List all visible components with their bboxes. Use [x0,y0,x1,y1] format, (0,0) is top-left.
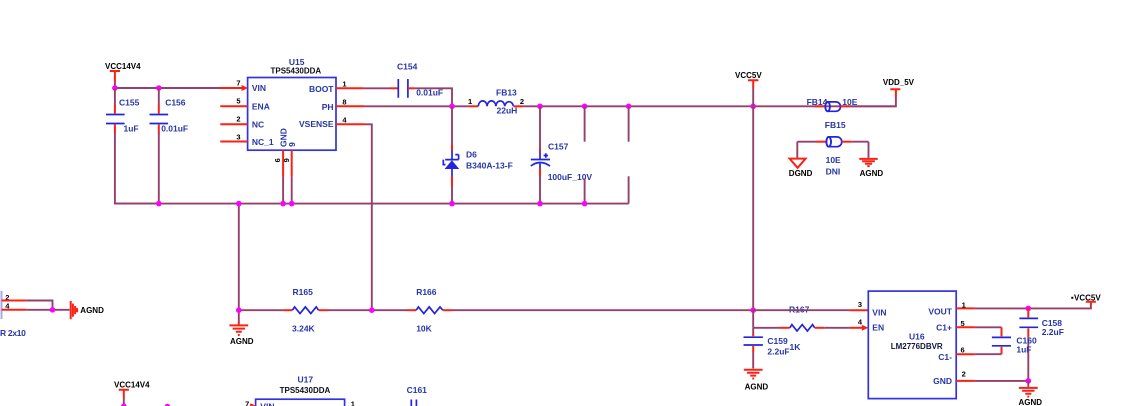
svg-text:VCC14V4: VCC14V4 [114,380,150,389]
ground DGND [789,142,813,178]
svg-text:DNI: DNI [826,167,841,177]
ground AGND rotated at connector [71,301,104,319]
wire output rail y106.3 [524,105,896,107]
unplaced footprint stub pair 2 [628,106,630,203]
wire C1+ to C160 [975,326,1002,328]
svg-text:FB15: FB15 [825,120,846,130]
junction at C156 [156,85,162,91]
power flag VCC5V right [1071,294,1101,306]
wire BOOT to C154 [363,87,390,89]
svg-text:AGND: AGND [745,383,769,392]
capacitor C161 (clipped) [407,385,428,406]
junction GND node [1026,378,1032,384]
capacitor C155 [106,88,159,204]
wire bottom GND rail y203.6 [115,203,629,205]
wire GND rail drop to AGND [238,204,240,322]
svg-text:7: 7 [245,400,249,406]
svg-text:D6: D6 [466,150,477,160]
pin 2 GND stub [956,370,975,381]
svg-text:VIN: VIN [260,402,274,406]
svg-text:22uH: 22uH [497,105,518,115]
svg-text:C155: C155 [119,97,140,107]
junction stub1 top [582,104,588,110]
capacitor C154 [390,61,443,97]
wire GND to AGND [975,380,1029,382]
connector fragment R 2x10 [0,291,70,338]
svg-text:NC: NC [252,119,264,129]
svg-text:3: 3 [236,133,240,142]
wire FB14 to VDD_5V [850,97,896,106]
svg-text:100uF_10V: 100uF_10V [548,172,593,182]
pin 4 EN stub with arrow [850,318,868,331]
svg-text:1: 1 [351,400,355,406]
svg-text:NC_1: NC_1 [252,137,274,147]
svg-text:6: 6 [273,158,282,162]
wire C154 to PH node [415,88,452,106]
junction stub2 top [626,104,632,110]
ferrite bead FB14 10E [807,97,858,111]
pin 5 C1+ stub [956,319,975,328]
wire EN branch from VCC5V node [753,310,779,328]
ground AGND below U16 [1019,381,1043,406]
svg-text:2: 2 [520,97,524,106]
power flag VCC14V4 [105,62,141,88]
pin 2 NC stub [220,115,247,125]
svg-text:1uF: 1uF [1016,345,1031,355]
wire VIN rail y88 [115,87,220,89]
junction C158 top [1026,306,1032,312]
svg-text:5: 5 [236,97,240,106]
svg-text:R 2x10: R 2x10 [0,328,26,338]
svg-text:10K: 10K [416,324,432,334]
wire PH to FB13 [364,105,469,107]
pin 7 VIN stub with arrow [220,78,249,91]
svg-text:2: 2 [236,115,240,124]
pin 9 GND stub below U15 [282,150,295,206]
resistor R167 1K [779,305,850,353]
inductor FB13 22uH [468,88,524,116]
wire VOUT to VCC5V flag [975,306,1091,309]
svg-text:AGND: AGND [230,337,254,346]
junction bottom rail drop [236,201,242,207]
svg-text:VCC5V: VCC5V [735,71,762,80]
svg-text:DGND: DGND [789,169,813,178]
unplaced footprint stub pair 1 [582,106,588,206]
wire VCC5V vertical to lower circuit [752,106,754,310]
svg-text:C161: C161 [407,385,428,395]
svg-text:VOUT: VOUT [928,307,952,317]
svg-text:GND: GND [933,376,952,386]
svg-text:7: 7 [236,78,240,87]
svg-text:2.2uF: 2.2uF [1042,327,1064,337]
svg-text:2.2uF: 2.2uF [767,347,789,357]
svg-text:FB13: FB13 [496,88,517,98]
svg-text:R166: R166 [416,287,437,297]
svg-text:1: 1 [962,300,966,309]
junction PH node [449,104,455,110]
svg-text:C1-: C1- [938,352,952,362]
svg-text:PH: PH [322,102,334,112]
capacitor C156 [150,88,189,204]
svg-text:9: 9 [287,142,297,147]
svg-text:1K: 1K [790,342,802,352]
svg-text:VCC14V4: VCC14V4 [105,62,141,71]
svg-text:AGND: AGND [860,169,884,178]
IC U16 LM2776DBVR [868,291,956,399]
svg-text:8: 8 [342,98,346,107]
svg-text:1uF: 1uF [124,124,139,134]
svg-text:3.24K: 3.24K [292,324,316,334]
capacitor C157 100uF_10V [531,106,593,206]
svg-text:1: 1 [342,79,346,88]
pin 8 PH stub [336,98,364,107]
svg-text:2: 2 [962,370,966,379]
svg-text:TPS5430DDA: TPS5430DDA [280,386,331,395]
capacitor C159 2.2uF [744,328,790,369]
svg-text:BOOT: BOOT [309,84,334,94]
svg-text:LM2776DBVR: LM2776DBVR [891,342,943,351]
svg-text:VSENSE: VSENSE [299,119,334,129]
IC U17 TPS5430DDA (clipped) [245,375,355,406]
diode D6 B340A-13-F [443,106,512,206]
junction bottom rail C156 [156,201,162,207]
power flag VCC5V [735,71,762,106]
svg-text:C1+: C1+ [936,323,952,333]
pin 3 NC_1 stub [220,133,247,142]
svg-text:6: 6 [961,346,965,355]
power flag VDD_5V [883,78,915,97]
svg-text:0.01uF: 0.01uF [161,124,188,134]
svg-text:1: 1 [468,97,472,106]
svg-text:C154: C154 [397,61,418,71]
svg-text:10E: 10E [826,155,841,165]
svg-text:U16: U16 [909,332,925,342]
pin 3 VIN stub [850,300,868,310]
resistor R166 10K [407,287,452,334]
pin 4 VSENSE stub [336,115,365,124]
ferrite bead FB15 10E DNI [797,120,868,177]
svg-text:TPS5430DDA: TPS5430DDA [271,66,322,75]
svg-text:FB14: FB14 [807,97,828,107]
svg-text:U17: U17 [298,375,314,385]
junction VCC5V tap [750,104,756,110]
svg-text:9: 9 [282,158,291,162]
svg-text:VIN: VIN [872,307,886,317]
svg-text:EN: EN [872,323,884,333]
IC U15 TPS5430DDA [248,57,336,150]
pin 1 VOUT stub [956,300,975,309]
svg-text:ENA: ENA [252,101,270,111]
pin 1 BOOT stub [336,79,363,88]
wire VSENSE to feedback node [365,124,372,310]
junction feedback left [236,307,242,313]
junction VCC5V feedback [750,307,756,313]
svg-text:VIN: VIN [252,83,266,93]
svg-text:C159: C159 [767,336,788,346]
junction at C155 [112,85,118,91]
ground AGND below feedback divider [229,322,253,346]
pin 6 C1- stub [956,346,975,355]
svg-text:3: 3 [858,300,862,309]
svg-text:5: 5 [961,319,965,328]
resistor R165 3.24K [283,287,327,334]
capacitor C160 1uF [992,327,1037,354]
wire feedback rail y310.2 [239,309,753,311]
wire C1- to C160 [975,353,1002,355]
svg-text:B340A-13-F: B340A-13-F [466,161,513,171]
power flag VCC14V4 bottom [114,380,150,406]
junction bottom rail left [121,403,127,406]
ground AGND below C159 [744,370,769,392]
wire VIN row to U16 [753,309,850,311]
svg-text:AGND: AGND [1019,398,1043,406]
svg-text:C157: C157 [548,141,569,151]
junction C157 top [537,104,543,110]
svg-text:C156: C156 [165,97,186,107]
svg-text:R165: R165 [293,287,314,297]
pin 6 GND stub below U15 [273,150,286,206]
svg-text:AGND: AGND [80,306,104,315]
junction bottom rail C162 [165,404,171,406]
capacitor C158 2.2uF [1019,308,1064,381]
svg-text:VDD_5V: VDD_5V [883,78,915,87]
pin 5 ENA stub [220,97,247,107]
ground AGND right of FB15 [859,142,883,178]
junction VSENSE feedback [369,307,375,313]
